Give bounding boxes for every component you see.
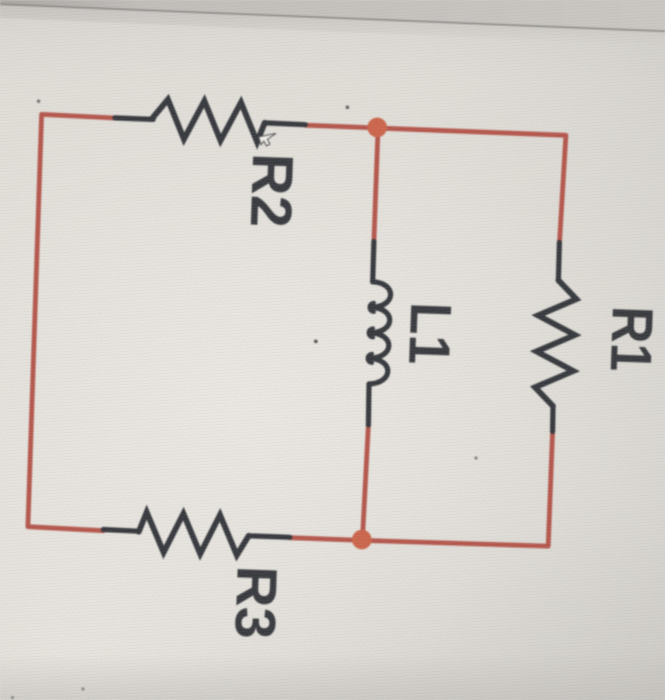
wire: top edge from R2 right lead through node A to top-right corner, down to R1 top lead — [305, 125, 566, 242]
resistor R2 — [115, 118, 153, 120]
resistor R3 — [103, 530, 139, 532]
wire: middle branch, L1 bottom lead down to node B — [362, 425, 368, 541]
node A (top junction) — [367, 118, 387, 138]
resistor R1 — [558, 243, 559, 281]
mouse cursor — [259, 134, 276, 146]
wire: from R1 bottom lead via bottom-right corner to node B — [362, 432, 552, 547]
wire: middle branch, node A down to L1 top lead — [374, 129, 378, 242]
wire: bottom edge from node B to R3 right lead — [290, 538, 363, 541]
node B (bottom junction) — [352, 530, 372, 550]
wire: left edge, from R3 left lead via bottom-left and top-left corners to R2 left lead — [28, 114, 115, 530]
inductor L1 — [373, 242, 374, 282]
